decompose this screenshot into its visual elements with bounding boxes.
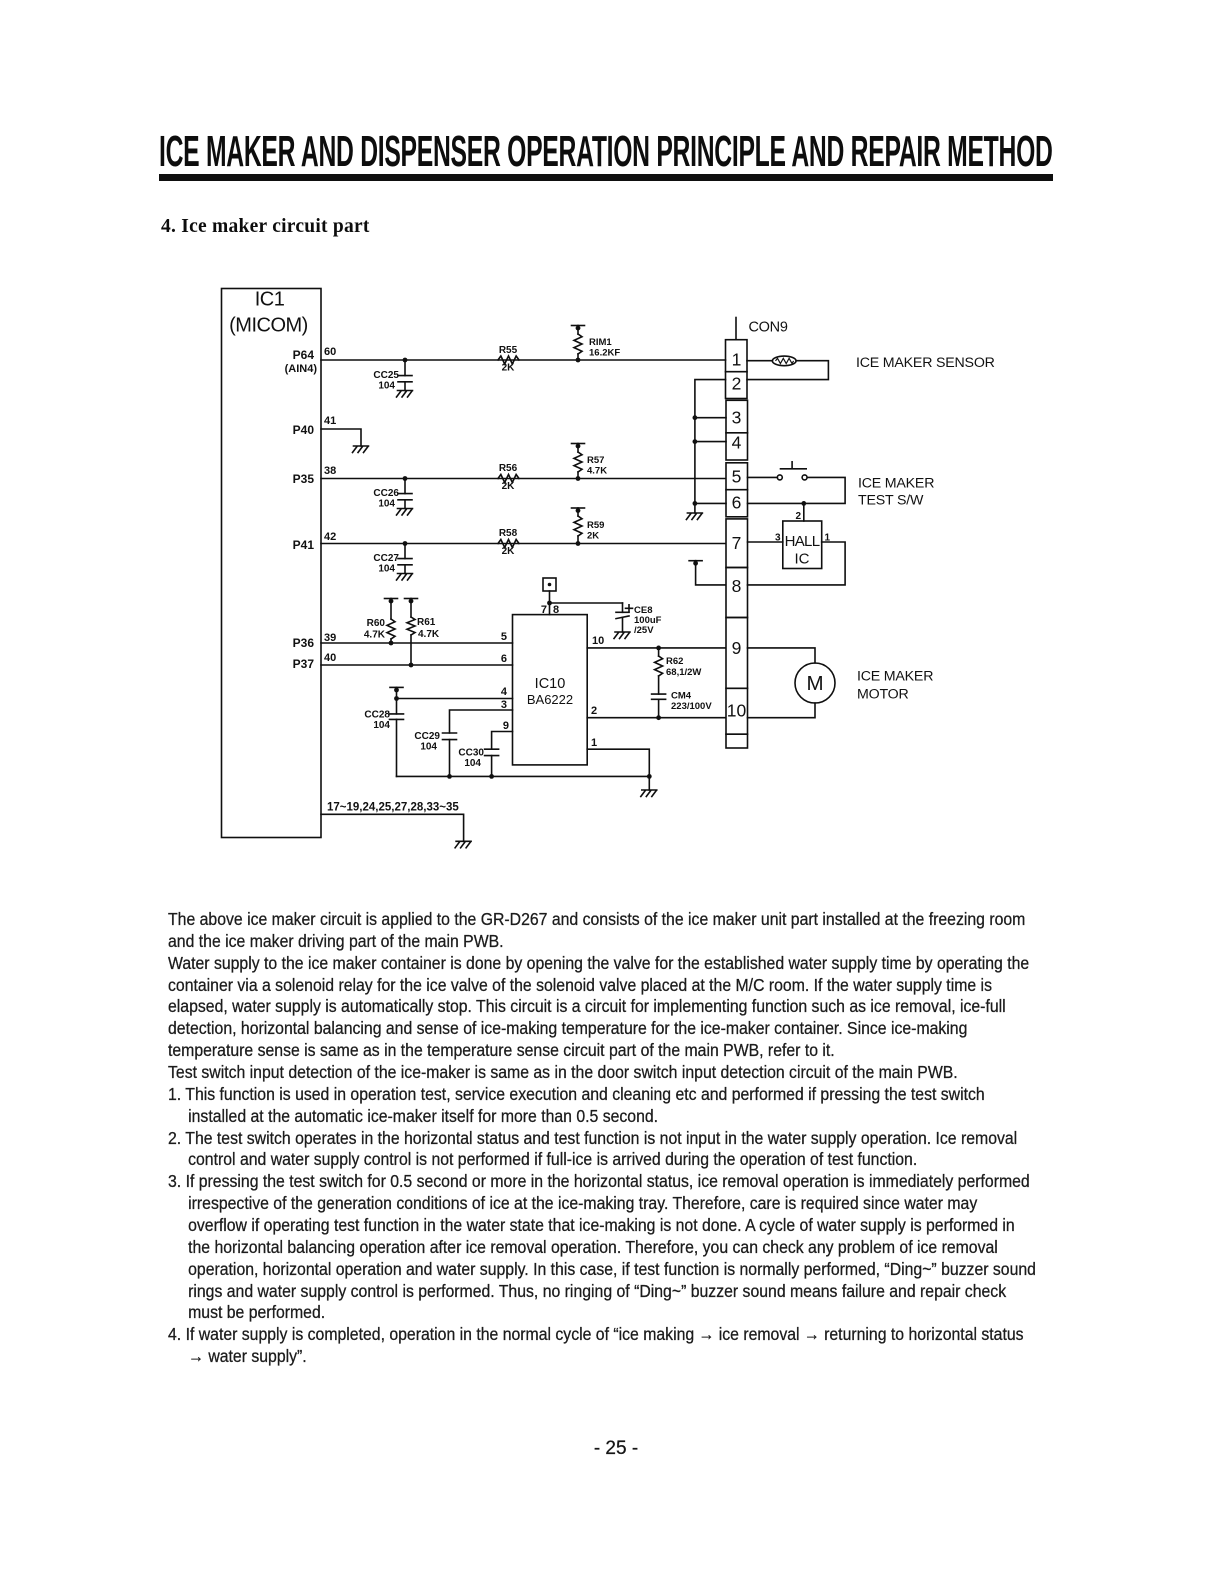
svg-text:IC1: IC1 (255, 289, 285, 311)
svg-text:4.7K: 4.7K (587, 466, 607, 477)
node R62 junction (656, 646, 661, 651)
svg-text:4.7K: 4.7K (418, 629, 440, 640)
svg-text:7: 7 (732, 533, 742, 553)
CC26 ground (397, 509, 413, 516)
supply terminal dot (548, 583, 552, 587)
svg-text:P64: P64 (293, 348, 315, 362)
CE8 plus sign (626, 605, 633, 612)
IC U10 BA6222 box (513, 615, 588, 765)
wire supply square to IC10 pins 7-8 (549, 591, 551, 615)
svg-text:38: 38 (324, 465, 336, 477)
svg-text:M: M (806, 672, 823, 695)
resistor R57 (577, 444, 579, 453)
svg-text:R58: R58 (499, 528, 518, 539)
wire CON9 pin5 to test switch (748, 476, 778, 478)
wire motor to CON9 pin10 (748, 703, 816, 718)
wire P40 stub (321, 429, 361, 446)
node CC26 junction (403, 476, 408, 481)
node CC25 junction (403, 358, 408, 363)
wire P64 row to CON9 pin1 (321, 359, 726, 361)
svg-text:/25V: /25V (634, 625, 654, 636)
svg-text:2: 2 (732, 374, 742, 394)
svg-text:68,1/2W: 68,1/2W (666, 667, 701, 678)
svg-text:IC: IC (795, 551, 810, 568)
svg-text:CC28: CC28 (364, 710, 390, 721)
CC25 ground (397, 391, 413, 398)
resistor R61 (410, 599, 412, 618)
wire P41 row to CON9 pin7 (321, 543, 726, 545)
capacitor CC26 (404, 479, 406, 494)
svg-text:8: 8 (553, 604, 559, 616)
svg-text:RIM1: RIM1 (589, 337, 612, 348)
wire hall IC pin1 to CON9 pin8 (748, 542, 846, 585)
svg-text:1: 1 (591, 737, 597, 749)
svg-text:10: 10 (592, 635, 604, 647)
svg-text:2: 2 (591, 705, 597, 717)
svg-text:R60: R60 (367, 618, 386, 629)
resistor R58 (498, 540, 519, 548)
svg-text:5: 5 (732, 467, 742, 487)
svg-text:P37: P37 (293, 657, 315, 671)
svg-text:223/100V: 223/100V (671, 701, 712, 712)
node R61 junction (409, 663, 414, 668)
node R60 junction (389, 641, 394, 646)
resistor R56 (498, 475, 519, 483)
svg-text:2K: 2K (502, 363, 516, 374)
svg-text:CC29: CC29 (414, 731, 440, 742)
svg-text:41: 41 (324, 415, 336, 427)
RIM1 supply bar (572, 326, 585, 331)
wire test switch to CON9 pin6 (748, 477, 846, 503)
R61 supply bar (405, 599, 418, 604)
node hall pin2 junction (801, 501, 806, 506)
node rail CC30 (489, 774, 494, 779)
wire supply to CE8 (550, 602, 623, 604)
svg-text:2K: 2K (502, 546, 516, 557)
thermistor ice maker sensor (772, 356, 796, 366)
CON9 pins 5-6 housing (726, 463, 748, 517)
wire rail to ground (648, 776, 650, 790)
node RIM1 junction (576, 358, 581, 363)
svg-text:104: 104 (464, 758, 481, 769)
svg-text:9: 9 (732, 638, 742, 658)
svg-text:ICE MAKER: ICE MAKER (857, 669, 933, 685)
svg-text:(MICOM): (MICOM) (229, 315, 308, 337)
resistor R59 (577, 508, 579, 516)
capacitor CC30 (485, 749, 499, 755)
hall IC box (783, 521, 822, 569)
wire ground rail (397, 775, 650, 777)
svg-text:17~19,24,25,27,28,33~35: 17~19,24,25,27,28,33~35 (327, 802, 459, 814)
svg-text:104: 104 (378, 381, 395, 392)
CE8 ground (614, 632, 630, 639)
capacitor CC28 (390, 714, 404, 720)
svg-text:P36: P36 (293, 636, 315, 650)
svg-text:1: 1 (732, 350, 742, 370)
node supply junction (547, 601, 552, 606)
CON9 pin 10 housing (726, 688, 748, 734)
svg-text:HALL: HALL (785, 533, 820, 550)
CON9 pin 8 housing (726, 568, 748, 618)
wire IC10 pin3 to CC29 (450, 710, 513, 733)
bus ground (686, 513, 702, 520)
svg-text:9: 9 (503, 720, 509, 732)
wire IC10 pin9 to CC30 (492, 732, 513, 750)
svg-text:P40: P40 (293, 423, 315, 437)
resistor R55 (498, 356, 519, 364)
wire hall IC pin2 (803, 503, 805, 521)
CON9 pins 3-4 housing (726, 400, 748, 460)
capacitor CE8 (electrolytic) (622, 603, 624, 612)
motor M1 ice maker motor (795, 663, 835, 703)
wire IC1 ground pins stub (321, 814, 464, 841)
svg-text:CM4: CM4 (671, 691, 692, 702)
svg-text:104: 104 (378, 564, 395, 575)
resistor RIM1 (577, 326, 579, 335)
svg-text:ICE MAKER: ICE MAKER (858, 476, 934, 492)
svg-text:R56: R56 (499, 463, 518, 474)
svg-text:P35: P35 (293, 472, 315, 486)
svg-text:6: 6 (732, 493, 742, 513)
wire bus to CON9 pin3 (695, 417, 726, 419)
IC U1 IC1 (MICOM) box (222, 289, 322, 838)
node R57 junction (576, 476, 581, 481)
P40 ground (353, 446, 369, 453)
svg-text:R55: R55 (499, 345, 518, 356)
node bus pin3 (693, 415, 698, 420)
test switch contact right (802, 475, 807, 480)
wire bus to CON9 pin6 (695, 502, 726, 504)
resistor R60 (390, 599, 392, 620)
CON9 tail housing (726, 734, 748, 748)
svg-text:CC30: CC30 (458, 748, 484, 759)
svg-text:10: 10 (727, 701, 747, 721)
node rail pin1 (647, 774, 652, 779)
CON9 pins 1-2 housing (726, 340, 748, 399)
rail ground (641, 790, 657, 797)
wire CON9 pin1 to sensor (747, 360, 773, 362)
capacitor CC25 (404, 360, 406, 376)
R57 supply bar (572, 444, 585, 449)
svg-text:16.2KF: 16.2KF (589, 348, 620, 359)
svg-text:R57: R57 (587, 455, 604, 466)
svg-text:40: 40 (324, 652, 336, 664)
svg-text:TEST S/W: TEST S/W (858, 493, 924, 509)
wire IC10 pin2 to CON9 pin10 (587, 717, 725, 719)
svg-text:2K: 2K (587, 531, 599, 542)
svg-text:IC10: IC10 (535, 676, 566, 692)
wire bus to CON9 pin4 (695, 441, 726, 443)
capacitor CC27 (404, 544, 406, 559)
svg-text:2K: 2K (502, 481, 516, 492)
R59 supply bar (572, 508, 585, 513)
CC28 supply bar (390, 687, 403, 692)
pin8 supply bar (689, 561, 702, 566)
node bus pin6 (693, 501, 698, 506)
svg-text:60: 60 (324, 346, 336, 358)
svg-text:4.7K: 4.7K (364, 630, 386, 641)
svg-text:R61: R61 (417, 617, 436, 628)
svg-text:CON9: CON9 (749, 320, 788, 336)
svg-text:8: 8 (732, 576, 742, 596)
node bus pin4 (693, 439, 698, 444)
svg-text:MOTOR: MOTOR (857, 687, 909, 703)
capacitor CC29 (443, 733, 457, 740)
svg-text:CC27: CC27 (373, 553, 399, 564)
node R59 junction (576, 541, 581, 546)
IC1 stub ground (455, 841, 471, 848)
svg-text:CC26: CC26 (373, 488, 399, 499)
wire P36 row to IC10 pin5 (321, 642, 513, 644)
svg-text:6: 6 (501, 653, 507, 665)
svg-text:(AIN4): (AIN4) (285, 363, 318, 375)
svg-text:4: 4 (501, 686, 508, 698)
R60 supply bar (385, 599, 398, 604)
wire supply to CON9 pin8 (696, 561, 726, 585)
wire CON9 pin9 to motor (748, 648, 816, 663)
CON9 pin 9 housing (726, 618, 748, 689)
supply terminal square (543, 578, 556, 591)
svg-text:104: 104 (373, 720, 390, 731)
svg-text:3: 3 (732, 408, 742, 428)
test switch actuator bar (781, 462, 807, 469)
wire sensor loop to CON9 pin2 (747, 361, 828, 380)
svg-text:R62: R62 (666, 656, 683, 667)
node CM4 junction (656, 715, 661, 720)
CON9 pin 7 housing (726, 519, 748, 568)
svg-text:104: 104 (378, 499, 395, 510)
svg-text:P41: P41 (293, 538, 315, 552)
wire CON9 pin7 to hall IC pin3 (748, 541, 783, 543)
svg-text:104: 104 (420, 742, 437, 753)
wire supply to IC10 pin4 (396, 687, 398, 714)
wire P35 row to CON9 pin5 (321, 478, 726, 480)
svg-text:5: 5 (501, 631, 507, 643)
node CC28 junction (394, 696, 399, 701)
wire CON9 pin2 to ground bus (695, 380, 726, 513)
node rail CC29 (447, 774, 452, 779)
svg-text:7: 7 (541, 604, 547, 616)
wire IC10 pin10 to CON9 pin9 (587, 647, 725, 649)
svg-text:4: 4 (732, 433, 742, 453)
svg-text:BA6222: BA6222 (527, 692, 573, 707)
svg-text:CC25: CC25 (373, 370, 399, 381)
capacitor CM4 (652, 694, 666, 699)
wire IC10 pin1 to ground rail (587, 749, 649, 776)
svg-text:ICE MAKER SENSOR: ICE MAKER SENSOR (856, 355, 995, 371)
resistor R62 (658, 648, 660, 656)
svg-text:R59: R59 (587, 520, 604, 531)
CON9 stub wire (735, 318, 737, 340)
svg-text:42: 42 (324, 531, 336, 543)
test switch contact left (777, 475, 782, 480)
wire P37 row to IC10 pin6 (321, 664, 513, 666)
node CC27 junction (403, 541, 408, 546)
CC27 ground (397, 574, 413, 581)
